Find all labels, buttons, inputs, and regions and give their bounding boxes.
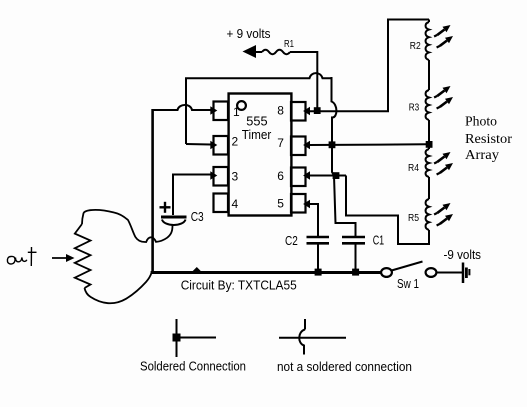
svg-text:7: 7 bbox=[277, 136, 284, 150]
svg-text:2: 2 bbox=[232, 135, 239, 149]
junction C2/rail bbox=[315, 269, 322, 276]
wire bottom rail bbox=[151, 271, 382, 274]
switch Sw1 lever bbox=[392, 262, 423, 271]
wire pin3 to C3 bbox=[173, 175, 211, 216]
svg-text:Photo: Photo bbox=[465, 114, 497, 129]
svg-text:Soldered Connection: Soldered Connection bbox=[140, 360, 246, 374]
op IC body U1 555 bbox=[229, 94, 292, 216]
handwritten out label bbox=[7, 256, 15, 264]
pot wiper arrow bbox=[52, 257, 70, 259]
wire pot bottom to rail corner bbox=[85, 273, 152, 304]
wire pin1 to left rail with hop bbox=[152, 105, 211, 110]
photoresistor R2 bbox=[428, 20, 430, 23]
wire left rail vertical bbox=[151, 109, 154, 272]
svg-text:+ 9 volts: + 9 volts bbox=[227, 27, 271, 41]
legend soldered symbol bbox=[176, 319, 178, 357]
photoresistor R3 bbox=[426, 90, 429, 120]
pin 6 box bbox=[291, 168, 306, 187]
wire pin5 to C2 bbox=[309, 204, 318, 237]
pin 7 box bbox=[291, 137, 306, 156]
wire pin8 to photoresistor rail bbox=[309, 20, 429, 112]
switch Sw1 pole A bbox=[381, 268, 392, 277]
svg-text:6: 6 bbox=[277, 169, 284, 183]
wire R3 to junction bbox=[428, 120, 430, 149]
svg-text:8: 8 bbox=[277, 104, 284, 118]
wire R2-R3 bbox=[428, 60, 430, 90]
resistor R1 bbox=[262, 50, 290, 54]
svg-text:R2: R2 bbox=[410, 40, 421, 52]
pin 3 box bbox=[214, 167, 229, 186]
svg-text:1: 1 bbox=[233, 105, 240, 119]
wire pin7 to array junction bbox=[309, 143, 426, 146]
junction pin6/mid vertical bbox=[333, 172, 340, 179]
svg-text:-9 volts: -9 volts bbox=[444, 248, 482, 262]
svg-text:R4: R4 bbox=[408, 162, 419, 174]
wire R1 to corner bbox=[290, 52, 317, 108]
junction pin7/array bbox=[426, 141, 433, 148]
capacitor C3 plus sign bbox=[160, 206, 171, 208]
photoresistor R4 bbox=[426, 149, 429, 177]
capacitor C3 curved plate bbox=[162, 220, 186, 225]
+9V supply arrow bbox=[243, 45, 257, 58]
pin 4 box bbox=[214, 194, 229, 213]
pin 8 box bbox=[291, 102, 306, 121]
svg-text:C3: C3 bbox=[191, 210, 204, 224]
pin 2 box bbox=[214, 136, 229, 155]
svg-text:3: 3 bbox=[232, 170, 239, 184]
wire switch to battery bbox=[437, 272, 463, 274]
svg-text:Sw 1: Sw 1 bbox=[397, 277, 419, 291]
svg-text:not a soldered connection: not a soldered connection bbox=[277, 360, 412, 374]
capacitor C2 bbox=[307, 236, 330, 239]
pin 1 box bbox=[214, 102, 229, 121]
svg-text:Array: Array bbox=[465, 147, 499, 162]
svg-text:4: 4 bbox=[232, 197, 239, 211]
svg-text:R1: R1 bbox=[284, 38, 294, 50]
svg-text:5: 5 bbox=[277, 197, 284, 211]
photoresistor R5 bbox=[426, 199, 429, 230]
battery -9V terminal bbox=[462, 263, 465, 284]
junction R1/pin8 bbox=[314, 107, 321, 114]
svg-text:R5: R5 bbox=[408, 212, 419, 224]
capacitor C3 top plate bbox=[161, 216, 187, 219]
junction bump on rail bbox=[192, 267, 203, 272]
svg-text:R3: R3 bbox=[409, 102, 420, 114]
svg-text:Timer: Timer bbox=[242, 128, 271, 142]
wire R4-R5 bbox=[428, 177, 430, 199]
svg-text:Resistor: Resistor bbox=[465, 131, 513, 146]
wire mid vertical with hop over pin8 wire bbox=[332, 77, 356, 238]
legend not-soldered symbol bbox=[279, 337, 346, 339]
pin 5 box bbox=[291, 194, 306, 213]
pin1 indicator circle bbox=[237, 101, 246, 110]
switch Sw1 pole B bbox=[426, 268, 437, 277]
svg-text:Circuit By: TXTCLA55: Circuit By: TXTCLA55 bbox=[181, 279, 297, 293]
junction C1/rail bbox=[352, 269, 359, 276]
wire C3 lead to pot top (hop over left rail) bbox=[82, 210, 173, 242]
wire R5 bottom return to pin6 net bbox=[346, 176, 429, 245]
wire pin2 riser and top run with hop over R1 drop bbox=[186, 73, 332, 144]
wire pin6 bbox=[309, 175, 346, 177]
svg-text:C2: C2 bbox=[285, 234, 298, 248]
potentiometer zigzag bbox=[75, 224, 91, 288]
wire pin2 horizontal bbox=[186, 143, 211, 146]
capacitor C1 bbox=[342, 236, 365, 239]
svg-text:C1: C1 bbox=[373, 234, 385, 248]
svg-text:555: 555 bbox=[246, 114, 267, 129]
junction pin7/mid vertical bbox=[329, 141, 336, 148]
